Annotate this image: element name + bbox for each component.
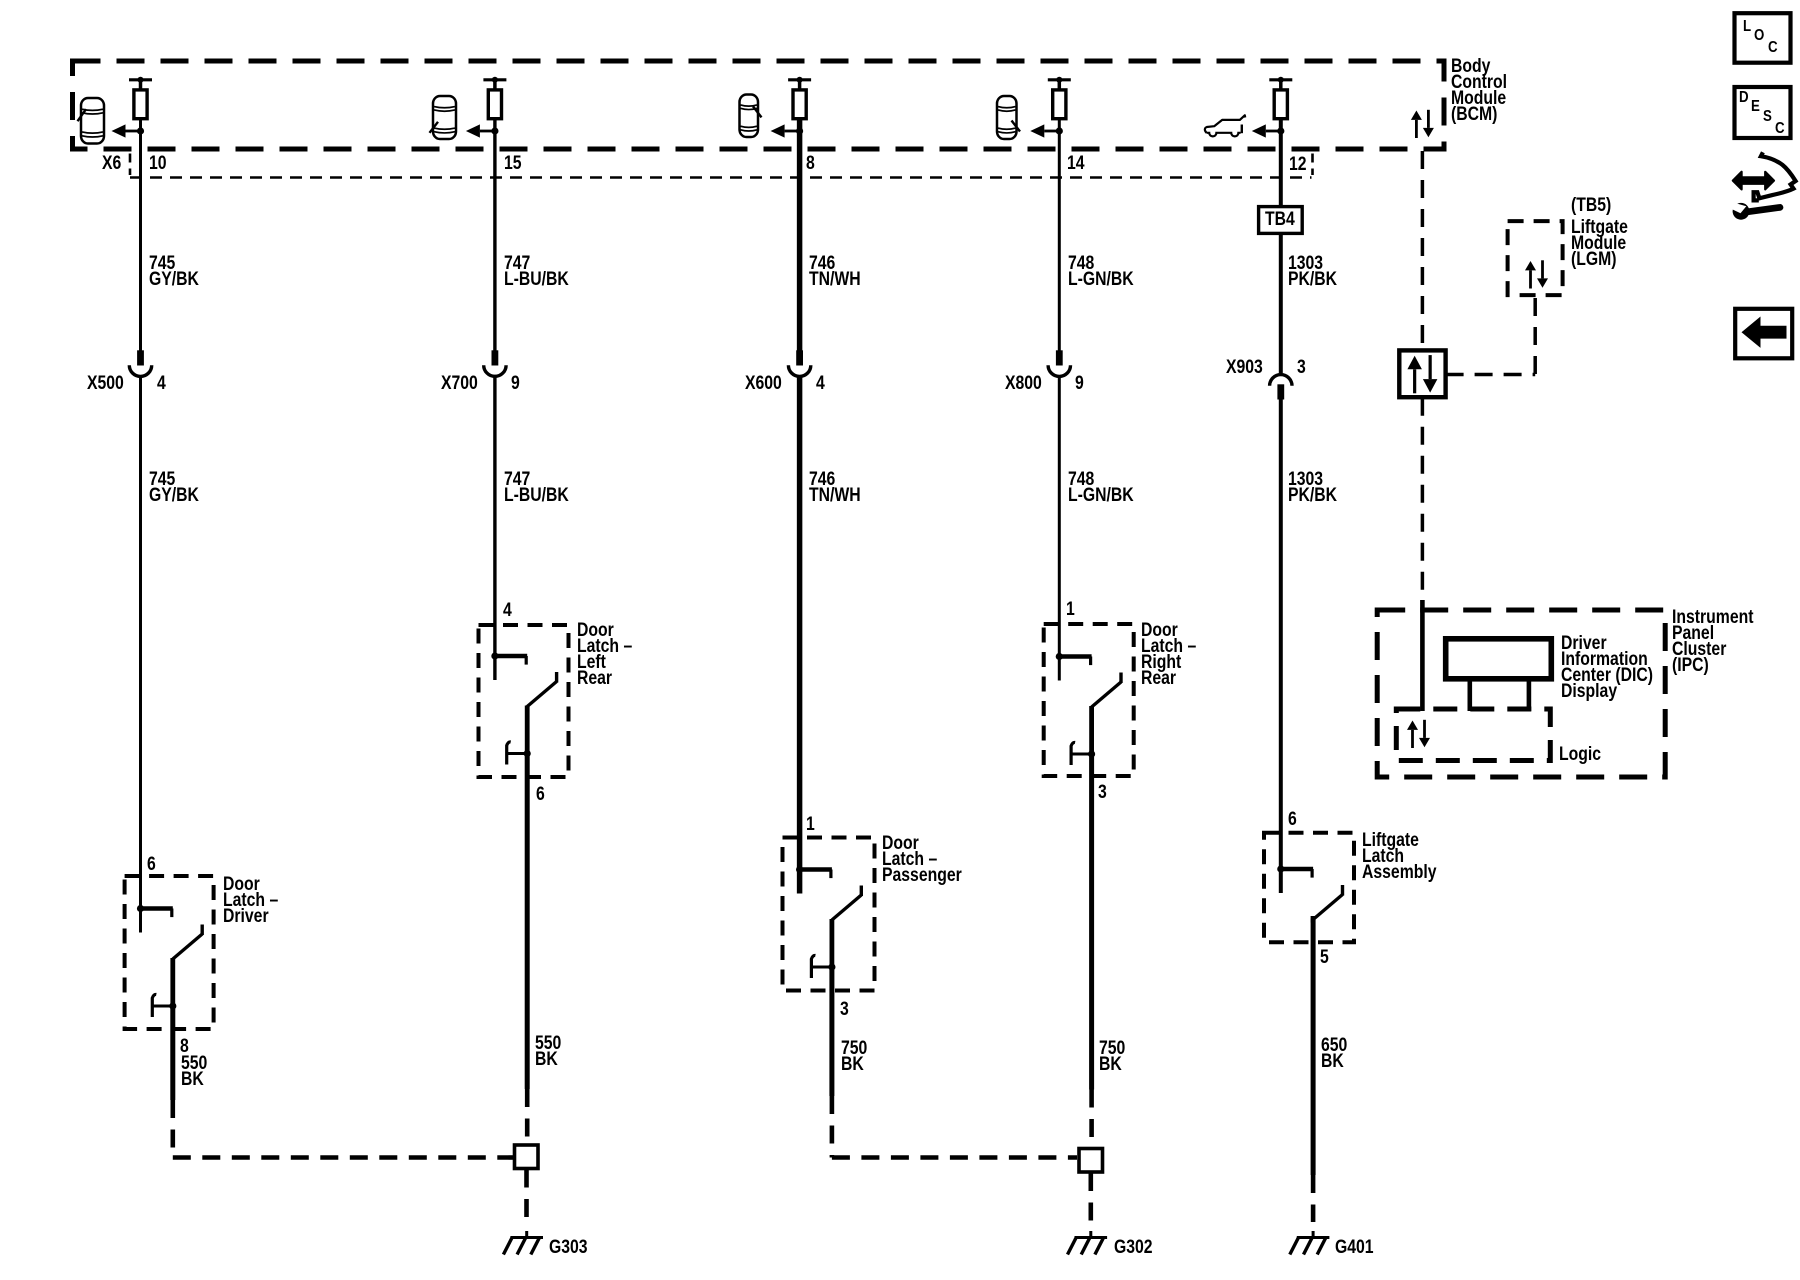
display right leg [1527, 679, 1532, 711]
Liftgate Latch Assembly internals (ajar switch) [1277, 865, 1342, 922]
dashed run: left rear 550 BK to splice [525, 1089, 530, 1144]
wire 1303 PK/BK segment (BCM pin 12 to TB4) [1279, 133, 1283, 205]
module box: Instrument Panel Cluster (IPC) [1377, 610, 1665, 777]
Door Latch - Left Rear internals (ajar switch) [491, 652, 556, 764]
inline connector X600 (pin 4) [788, 350, 810, 376]
ground G302 [1068, 1231, 1108, 1255]
inline connector X903 (pin 3) [1270, 375, 1292, 400]
dashed run: splice to ground G303 [524, 1170, 529, 1223]
serial data dashed line (LGM drop) [1533, 298, 1537, 375]
wire 1303 PK/BK segment (TB4 to X903) [1279, 234, 1283, 373]
dashed run: driver latch 550 BK to splice [173, 1100, 513, 1158]
wire 650 BK from liftgate latch pin 5 [1311, 916, 1316, 1175]
splice S303 (junction box) [515, 1145, 539, 1169]
wire 748 L-GN/BK upper segment (BCM pin 14 to X800) [1058, 133, 1061, 351]
serial data dashed line (gateway box down to IPC) [1421, 398, 1425, 607]
BCM connector X6 right separator [1311, 154, 1314, 176]
switch: Liftgate Latch Assembly (dashed box) [1264, 833, 1354, 943]
data link communication icon (double arrow, connector outline, wrench) [1731, 152, 1796, 219]
Door Latch - Right Rear internals (ajar switch) [1056, 653, 1121, 765]
wire 747 L-BU/BK lower segment (X700 to left rear latch) [493, 377, 496, 656]
inline connector X700 (pin 9) [484, 350, 506, 376]
splice S302 (junction box) [1079, 1149, 1103, 1173]
BCM connector X6 boundary (thin dashed line) [130, 176, 1312, 179]
logic box (dashed) inside IPC [1396, 709, 1550, 761]
IPC logic serial data symbol (up/down arrows) [1407, 720, 1430, 748]
inline connector X500 (pin 4) [129, 350, 151, 376]
serial data dashed line (BCM to gateway box) [1421, 151, 1425, 346]
display left leg [1468, 679, 1473, 711]
wire 750 BK from right rear latch pin 3 [1089, 754, 1094, 1090]
back navigation box (left arrow) [1735, 309, 1792, 359]
BCM passenger door output, wire 746: internal driver (resistor, node, arrow to door-ajar indicator) [771, 77, 812, 138]
wire 748 L-GN/BK lower segment (X800 to right rear latch) [1058, 377, 1061, 657]
BCM left rear door output, wire 747: internal driver (resistor, node, arrow to door-ajar indicator) [466, 77, 507, 138]
wire 550 BK from left rear latch pin 6 [525, 753, 530, 1089]
wire 745 GY/BK upper segment (BCM pin 10 to X500) [139, 133, 142, 351]
switch: Door Latch - Driver (dashed box) [125, 876, 214, 1029]
switch: Door Latch - Left Rear (dashed box) [479, 625, 569, 777]
serial data line inside IPC (solid) [1420, 600, 1425, 711]
icon: driver door (car top view, front-left door open) [78, 98, 105, 144]
ground G303 [503, 1231, 543, 1255]
DESC navigation box [1735, 87, 1791, 138]
BCM internal serial data symbol (up/down arrows) [1411, 110, 1434, 138]
Door Latch - Driver internals (ajar switch) [137, 905, 202, 1017]
inline connector X800 (pin 9) [1048, 350, 1070, 376]
Door Latch - Passenger internals (ajar switch) [796, 866, 861, 978]
gateway symbol box (serial data up/down arrows) [1399, 350, 1445, 397]
dashed run: splice to ground G302 [1089, 1173, 1094, 1222]
icon: left rear door (car top view, rear-left door open) [430, 96, 457, 139]
wire 746 TN/WH upper segment (BCM pin 8 to X600) [797, 133, 803, 351]
icon: right rear door (car top view, rear-right door open) [997, 96, 1020, 139]
dashed run: liftgate 650 BK to ground G401 [1311, 1175, 1316, 1222]
BCM connector X6 left separator [129, 154, 132, 176]
LOC navigation box [1735, 13, 1791, 63]
dashed run: right rear 750 BK to splice [1089, 1090, 1094, 1149]
wire 750 BK from passenger latch pin 3 [829, 966, 834, 1096]
wire 1303 PK/BK lower segment (X903 to liftgate latch) [1279, 400, 1283, 870]
wire 747 L-BU/BK upper segment (BCM pin 15 to X700) [493, 133, 496, 351]
wire 746 TN/WH lower segment (X600 to passenger latch) [797, 377, 803, 870]
wire 745 GY/BK lower segment (X500 to driver latch) [139, 377, 142, 909]
module box: Body Control Module (BCM) [73, 61, 1445, 149]
Driver Information Center (DIC) Display (display block) [1446, 639, 1552, 679]
BCM driver door output, wire 745: internal driver (resistor, node, arrow to door-ajar indicator) [112, 77, 153, 138]
terminal block TB4 [1259, 207, 1303, 234]
icon: passenger door (car top view, front-right door open) [740, 95, 762, 138]
module box: Liftgate Module (LGM) (TB5) [1508, 221, 1563, 295]
wire 550 BK from driver latch pin 8 [170, 1005, 175, 1101]
BCM right rear door output, wire 748: internal driver (resistor, node, arrow to door-ajar indicator) [1030, 77, 1071, 138]
icon: liftgate (SUV side view, hatch open) [1205, 115, 1245, 136]
dashed run: passenger latch 750 BK to splice [832, 1096, 1077, 1158]
switch: Door Latch - Right Rear (dashed box) [1044, 624, 1134, 776]
BCM liftgate output, wire 1303: internal driver (resistor, node, arrow to door-ajar indicator) [1252, 77, 1293, 138]
serial data dashed line (gateway box right toward LGM) [1446, 373, 1536, 377]
ground G401 [1290, 1231, 1330, 1255]
switch: Door Latch - Passenger (dashed box) [783, 838, 875, 991]
LGM serial data symbol (up/down arrows) [1525, 260, 1548, 288]
